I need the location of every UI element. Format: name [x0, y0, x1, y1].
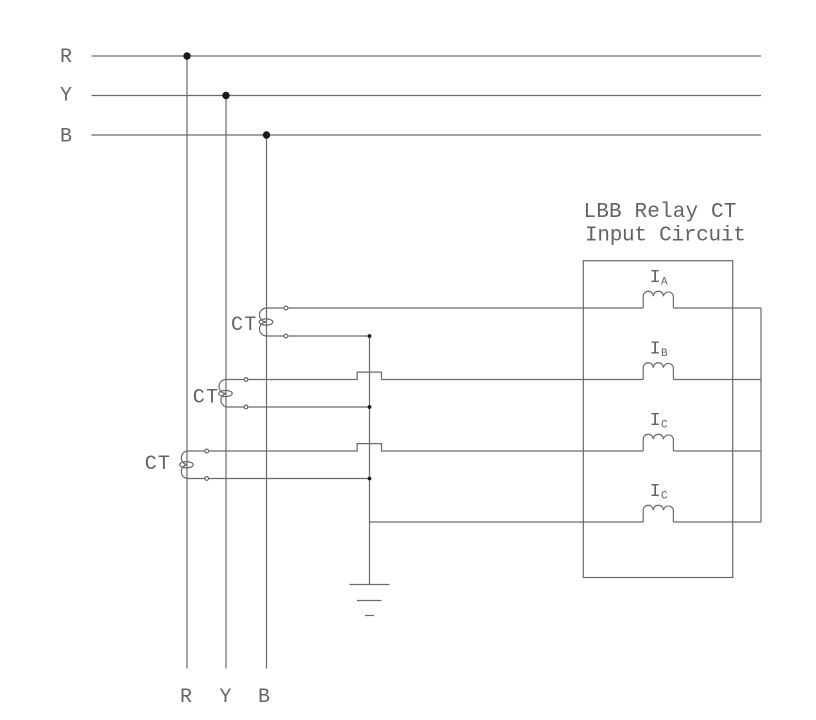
title LBB Relay CT Input Circuit: [584, 201, 746, 247]
wire row4 coil IN to right bus: [673, 521, 761, 523]
wire CT-R secondary s1 stub: [187, 450, 205, 452]
wire phase B drop: [266, 135, 268, 669]
inductor IA: [643, 291, 673, 308]
svg-text:CT: CT: [145, 453, 171, 476]
svg-text:C: C: [661, 420, 668, 432]
terminal circle CT-Y s2: [244, 405, 248, 409]
junction dot neutral/Y: [368, 405, 372, 409]
svg-text:R: R: [180, 686, 192, 709]
wire phase Y drop: [225, 96, 227, 669]
svg-text:I: I: [650, 482, 661, 502]
wire CT-Y secondary s2 stub: [226, 406, 244, 408]
wire CT-B s2 to neutral node: [288, 335, 369, 337]
ground symbol: [350, 585, 390, 616]
svg-text:Y: Y: [220, 686, 232, 709]
terminal circle CT-R s1: [205, 449, 209, 453]
svg-text:A: A: [661, 277, 668, 289]
CT on phase R: [180, 451, 194, 479]
wire row1 coil IA to right bus: [673, 307, 761, 309]
terminal circle CT-R s2: [205, 477, 209, 481]
svg-text:R: R: [60, 46, 72, 69]
terminal circle CT-B s2: [284, 334, 288, 338]
svg-text:C: C: [661, 491, 668, 503]
junction dot bus B: [263, 131, 270, 138]
junction dot bus R: [183, 52, 190, 59]
label IC2: [650, 482, 668, 503]
svg-text:Input Circuit: Input Circuit: [585, 224, 746, 247]
terminal circle CT-Y s1: [244, 378, 248, 382]
bus wire R: [92, 55, 762, 57]
wire row4 neutral to coil IN: [370, 521, 644, 523]
wire row1 terminal to coil IA: [288, 307, 643, 309]
terminal circle CT-B s1: [284, 306, 288, 310]
svg-text:CT: CT: [193, 387, 219, 410]
junction dot neutral/B: [368, 334, 372, 338]
CT on phase B: [259, 308, 273, 336]
wire CT-B secondary s1 stub: [267, 307, 284, 309]
bus wire B: [92, 134, 762, 136]
svg-text:B: B: [661, 348, 668, 360]
wire row3 coil IC to right bus: [673, 450, 761, 452]
wire phase R drop: [186, 56, 188, 669]
wire row2 with hop over neutral to coil IB: [248, 372, 643, 379]
svg-text:Y: Y: [60, 85, 72, 108]
svg-text:I: I: [650, 340, 661, 360]
inductor IC2: [643, 505, 673, 522]
inductor IB: [643, 363, 673, 380]
neutral common wire vertical: [369, 336, 371, 585]
junction dot bus Y: [222, 92, 229, 99]
inductor IC: [643, 434, 673, 451]
wire row2 coil IB to right bus: [673, 379, 761, 381]
svg-text:B: B: [60, 126, 72, 149]
wire CT-R secondary s2 stub: [187, 478, 205, 480]
wire CT-B secondary s2 stub: [267, 335, 284, 337]
wire CT-Y s2 to neutral node: [248, 406, 369, 408]
label IB: [650, 340, 668, 361]
wire row3 with hop over neutral to coil IC: [209, 444, 643, 451]
CT on phase Y: [219, 380, 233, 408]
junction dot neutral/R: [368, 477, 372, 481]
label IC: [650, 411, 668, 432]
relay box outline: [583, 261, 732, 578]
label IA: [650, 268, 668, 289]
wire CT-R s2 to neutral node: [209, 478, 370, 480]
svg-text:B: B: [258, 686, 270, 709]
svg-text:I: I: [650, 268, 661, 288]
svg-text:I: I: [650, 411, 661, 431]
wire CT-Y secondary s1 stub: [226, 379, 244, 381]
bus wire Y: [92, 95, 762, 97]
right bus wire joining coil returns: [760, 308, 762, 522]
svg-text:LBB Relay CT: LBB Relay CT: [584, 201, 737, 224]
svg-text:CT: CT: [231, 314, 257, 337]
